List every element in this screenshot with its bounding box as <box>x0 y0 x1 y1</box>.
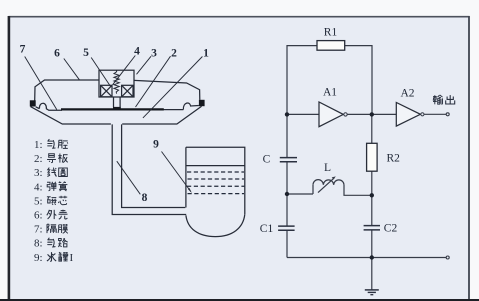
R1 <box>317 41 345 51</box>
svg-text:A1: A1 <box>323 87 337 99</box>
air pipe inner wall (8) <box>122 124 186 207</box>
svg-text:7:: 7: <box>34 224 43 236</box>
leader line 3 <box>137 56 152 74</box>
svg-text:9:: 9: <box>34 252 43 264</box>
leader line 7 <box>25 57 57 110</box>
R2 <box>367 143 378 171</box>
leader 9 arrowhead <box>188 188 192 193</box>
svg-text:7: 7 <box>20 44 26 56</box>
leader line 8 <box>117 161 141 194</box>
wire node C to L left <box>287 193 313 195</box>
leader line 4 <box>113 56 136 85</box>
junction node A (A1 input rail) <box>285 112 289 116</box>
diaphragm left thin + hump <box>36 103 62 110</box>
output terminal bottom <box>446 256 449 259</box>
junction node E (ground / bottom rail) <box>370 255 374 259</box>
wire left rail upper (node A to C) <box>286 114 288 157</box>
wire node A to A1 input <box>287 113 319 115</box>
svg-text:L: L <box>324 162 331 174</box>
coil housing box <box>99 70 134 97</box>
svg-text:1:: 1: <box>34 139 43 151</box>
wire left rail lower (C1 to bottom) <box>286 231 288 258</box>
node dots <box>285 112 374 260</box>
legend <box>34 139 74 264</box>
junction node D (L right / R2 bottom) <box>370 193 374 197</box>
clamp square right <box>199 100 205 106</box>
housing upper shell outline left <box>35 80 99 101</box>
housing lower shell outline left <box>31 107 111 124</box>
output terminal top <box>446 113 449 116</box>
leader line 6 <box>64 59 80 80</box>
housing upper shell outline right <box>134 80 200 100</box>
wire feedback loop R1 <box>287 46 372 115</box>
svg-text:2:: 2: <box>34 153 43 165</box>
svg-text:C2: C2 <box>384 223 398 235</box>
diaphragm right thin + hump <box>164 103 199 110</box>
coil X-box right <box>122 85 133 97</box>
inductor L (variable, 3 humps) <box>313 178 344 193</box>
svg-text:3:: 3: <box>34 167 43 179</box>
svg-text:4:: 4: <box>34 181 43 193</box>
svg-text:5:: 5: <box>34 195 43 207</box>
junction node C (C / L left) <box>285 192 289 196</box>
water tank walls (9) <box>186 147 245 214</box>
wire L right to node D <box>344 185 372 196</box>
water tank liquid surface line <box>186 165 245 167</box>
core columns <box>114 97 121 108</box>
wire left rail middle (C to C1) <box>286 162 288 226</box>
svg-text:I: I <box>70 252 74 264</box>
svg-text:1: 1 <box>203 48 209 60</box>
svg-text:8:: 8: <box>34 238 43 250</box>
svg-text:8: 8 <box>142 192 148 204</box>
diaphragm thick plate <box>61 108 164 110</box>
capacitor C <box>280 158 297 162</box>
svg-text:2: 2 <box>171 48 177 60</box>
spring zigzag <box>114 70 119 93</box>
wire R2 bottom to C2 <box>371 171 373 225</box>
leader lines <box>25 56 203 195</box>
svg-text:6:: 6: <box>34 210 43 222</box>
svg-text:R1: R1 <box>324 27 338 39</box>
wire A1 output to A2 input <box>347 113 396 115</box>
capacitor C1 <box>278 226 295 230</box>
op-amp A1 <box>319 102 343 127</box>
core tip <box>113 107 121 110</box>
wire node B to R2 top <box>371 114 373 143</box>
op-amp A2 <box>396 103 420 127</box>
svg-text:A2: A2 <box>400 88 414 100</box>
svg-text:9: 9 <box>153 139 159 151</box>
ground symbol <box>365 290 379 295</box>
leader line 9 <box>162 152 191 192</box>
svg-text:6: 6 <box>54 48 60 60</box>
svg-text:R2: R2 <box>387 153 401 165</box>
air pipe outer wall (8) <box>112 124 186 214</box>
label output (shu chu) <box>433 95 443 104</box>
inductor L arrowhead <box>332 176 336 179</box>
junction node B (A1 output / R2 top) <box>370 112 374 116</box>
leader line 1 <box>143 57 203 118</box>
tank water dashed lines <box>187 172 244 194</box>
svg-text:C: C <box>263 154 271 166</box>
svg-text:5: 5 <box>83 47 89 59</box>
water tank rounded bottom <box>186 214 245 236</box>
leader line 2 <box>136 56 171 107</box>
part numbers <box>20 44 210 205</box>
legend item characters (1 air chamber .. 9 water tank) <box>48 139 55 148</box>
wire A2 output to terminal <box>424 113 446 115</box>
leader line 5 <box>91 58 110 87</box>
capacitor C2 <box>364 226 380 230</box>
svg-text:C1: C1 <box>260 223 274 235</box>
wire L left riser <box>312 185 314 194</box>
svg-text:4: 4 <box>134 46 140 58</box>
wire bottom rail <box>287 257 446 259</box>
coil X-box left <box>101 85 112 97</box>
circuit labels <box>260 27 415 236</box>
wire ground stem <box>371 258 373 290</box>
svg-text:3: 3 <box>151 48 157 60</box>
housing lower shell outline right <box>122 106 201 124</box>
clamp square left <box>30 100 36 106</box>
wire C2 to bottom rail <box>371 230 373 258</box>
